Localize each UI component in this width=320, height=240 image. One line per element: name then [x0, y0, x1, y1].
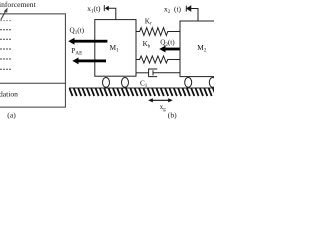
roller 4 under M2	[209, 78, 216, 88]
svg-text:inforcement: inforcement	[0, 0, 37, 9]
force Q1 arrow	[68, 38, 107, 45]
damper C1	[136, 69, 180, 77]
roller 2 under M1	[122, 78, 129, 88]
force P_AE arrow	[72, 58, 106, 65]
reinforcement layer 1 (dashed)	[0, 20, 12, 22]
roller 1 under M1	[103, 78, 110, 88]
mass M2 box	[180, 21, 216, 77]
force Q2 arrow	[159, 46, 192, 53]
spring Kr	[136, 28, 180, 36]
ground motion double arrow	[148, 98, 173, 102]
ground hatching	[70, 88, 217, 96]
spring Kb	[136, 56, 180, 63]
reinforcement layer 2 (dashed)	[0, 29, 12, 31]
reinforcement layer 3 (dashed)	[0, 38, 12, 40]
reinforcement layer 5 (dashed)	[0, 58, 12, 60]
svg-text:Q2(t): Q2(t)	[160, 39, 175, 48]
x2 displacement pointer	[186, 6, 198, 21]
x1 displacement pointer	[104, 5, 116, 19]
mass M1 box	[95, 20, 136, 77]
reinforcement layer 4 (dashed)	[0, 48, 12, 50]
facing/foundation divider	[0, 82, 65, 84]
svg-text:x1(t): x1(t)	[87, 4, 101, 14]
svg-text:Q1(t): Q1(t)	[70, 27, 85, 36]
reinforcement layer 6 (dashed)	[0, 68, 12, 70]
reinforcement leader arrow	[1, 8, 8, 20]
ground line	[69, 87, 214, 89]
svg-text:(a): (a)	[7, 111, 16, 120]
svg-text:dation: dation	[0, 90, 18, 99]
wall panel outline (a)	[0, 14, 65, 107]
roller 3 under M2	[185, 78, 192, 88]
svg-text:(b): (b)	[168, 110, 177, 119]
